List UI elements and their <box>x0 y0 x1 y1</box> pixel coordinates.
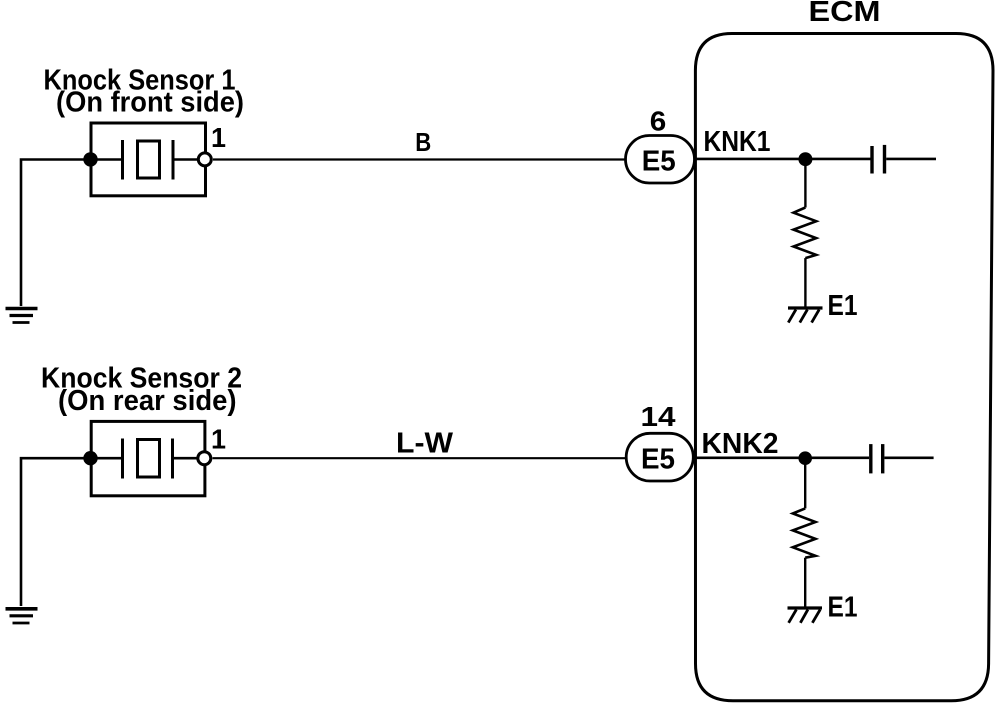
ground G2 <box>6 609 38 623</box>
svg-text:1: 1 <box>211 424 226 455</box>
connector E5 pin 14 <box>626 433 693 481</box>
knock sensor 1 body <box>91 123 206 196</box>
ECM enclosure U1 <box>695 34 993 701</box>
svg-text:KNK2: KNK2 <box>702 428 779 460</box>
junction sensor 1 ground terminal <box>83 152 97 166</box>
svg-text:ECM: ECM <box>809 0 881 28</box>
svg-text:14: 14 <box>641 401 676 432</box>
svg-text:E1: E1 <box>828 592 858 624</box>
capacitor C1 <box>872 145 936 174</box>
knock sensor 2 body <box>91 421 205 495</box>
svg-text:E1: E1 <box>828 290 858 322</box>
ground G1 <box>6 309 38 323</box>
wire L-W sensor2 to E5 <box>213 457 627 459</box>
chassis ground E1 (row 1) <box>788 308 823 323</box>
svg-text:L-W: L-W <box>396 428 454 460</box>
wire KNK2 inside ECM <box>695 456 869 459</box>
terminal pin 1 sensor 1 <box>198 153 211 166</box>
wire KNK1 inside ECM <box>696 158 871 161</box>
svg-text:KNK1: KNK1 <box>704 126 771 158</box>
connector E5 pin 6 <box>626 136 695 184</box>
junction node KNK2 <box>798 451 812 465</box>
chassis ground E1 (row 2) <box>788 608 823 623</box>
svg-text:E5: E5 <box>642 145 676 177</box>
junction node KNK1 <box>798 152 812 166</box>
junction sensor 2 ground terminal <box>83 451 97 465</box>
svg-text:B: B <box>415 127 431 157</box>
wire ground lead sensor 2 <box>21 458 91 606</box>
wire B sensor1 to E5 <box>213 158 626 160</box>
knock sensor 2 piezo element <box>90 439 204 479</box>
svg-text:6: 6 <box>650 105 667 136</box>
svg-text:(On rear side): (On rear side) <box>58 385 237 417</box>
svg-text:1: 1 <box>211 122 226 153</box>
resistor R2 <box>793 458 816 607</box>
svg-text:E5: E5 <box>641 444 675 476</box>
capacitor C2 <box>871 444 934 473</box>
wire ground lead sensor 1 <box>21 160 91 307</box>
resistor R1 <box>794 159 817 307</box>
terminal pin 1 sensor 2 <box>198 452 211 465</box>
svg-text:(On front side): (On front side) <box>56 87 244 119</box>
knock sensor 1 piezo element <box>90 140 205 180</box>
